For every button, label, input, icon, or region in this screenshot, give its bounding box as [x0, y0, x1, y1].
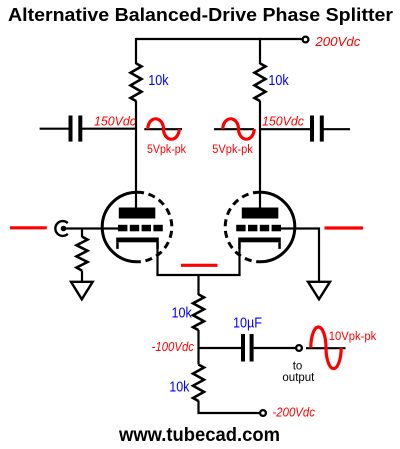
resistor 10k (left plate load) — [131, 63, 142, 101]
wire: right plate branch lower — [259, 101, 261, 209]
svg-text:10k: 10k — [148, 73, 169, 89]
input jack — [55, 221, 67, 236]
AC signal symbol (output, 10Vpk-pk) — [306, 327, 346, 369]
signal marker: right output (red) — [325, 226, 364, 229]
wire: left cap to plate node — [82, 128, 136, 130]
wire: cathode bus — [156, 274, 240, 276]
triode (right half of dual triode) — [225, 192, 295, 262]
wire: left plate branch lower — [135, 101, 137, 209]
wire: left plate branch upper — [135, 38, 137, 64]
svg-text:10µF: 10µF — [233, 316, 262, 332]
wire: right output stub — [324, 128, 351, 130]
signal marker: input (red) — [10, 226, 47, 229]
svg-text:output: output — [282, 372, 315, 384]
svg-text:www.tubecad.com: www.tubecad.com — [118, 424, 280, 446]
wire: tail node to output cap — [199, 347, 242, 349]
terminal: to output — [296, 345, 302, 351]
svg-text:5Vpk-pk: 5Vpk-pk — [147, 144, 186, 156]
wire: cathode bus to tail resistor — [197, 275, 199, 295]
svg-text:10k: 10k — [268, 73, 289, 89]
resistor (grid leak, left) — [77, 237, 88, 271]
capacitor 10uF (output coupling) — [243, 334, 252, 362]
terminal: -200Vdc — [260, 410, 266, 416]
wire: B+ top rail — [136, 38, 302, 40]
wire: input jack to left grid — [65, 227, 118, 229]
triode (left half of dual triode) — [102, 192, 172, 262]
svg-text:-100Vdc: -100Vdc — [152, 339, 195, 354]
wire: cap to output terminal — [254, 347, 296, 349]
svg-text:10k: 10k — [172, 305, 193, 321]
wire: right plate node to cap — [260, 128, 310, 130]
svg-text:200Vdc: 200Vdc — [314, 34, 361, 49]
wire: left output stub — [40, 128, 69, 130]
label: to output — [282, 360, 315, 384]
resistor 10k (tail upper) — [193, 294, 204, 330]
svg-text:150Vdc: 150Vdc — [94, 113, 136, 128]
wire: left cathode lead — [156, 242, 158, 275]
wire: tail node vertical — [197, 330, 199, 365]
svg-text:Alternative Balanced-Drive Pha: Alternative Balanced-Drive Phase Splitte… — [8, 4, 393, 25]
AC signal symbol (right, 5Vpk-pk) — [214, 119, 254, 139]
svg-text:10k: 10k — [169, 379, 190, 395]
svg-text:150Vdc: 150Vdc — [262, 113, 304, 128]
wire: grid resistor drop — [81, 229, 83, 238]
AC signal symbol (left, 5Vpk-pk) — [144, 119, 182, 139]
capacitor (right output coupling) — [312, 116, 322, 142]
wire: right plate branch upper — [259, 38, 261, 64]
wire: right cathode lead — [238, 242, 240, 275]
svg-text:5Vpk-pk: 5Vpk-pk — [212, 144, 253, 156]
ground (right) — [308, 282, 330, 300]
capacitor (left output coupling) — [71, 116, 81, 142]
resistor 10k (right plate load) — [255, 63, 266, 101]
terminal: 200Vdc B+ — [303, 37, 309, 43]
wire: to -200Vdc terminal — [199, 401, 260, 413]
wire: right grid to ground corner — [279, 229, 319, 283]
svg-text:-200Vdc: -200Vdc — [273, 405, 316, 420]
resistor 10k (tail lower) — [193, 365, 204, 402]
svg-text:to: to — [293, 360, 303, 372]
signal marker: cathode (red) — [181, 264, 218, 267]
svg-text:10Vpk-pk: 10Vpk-pk — [329, 331, 377, 343]
ground (left) — [71, 282, 93, 300]
wire: grid resistor to ground — [81, 271, 83, 282]
